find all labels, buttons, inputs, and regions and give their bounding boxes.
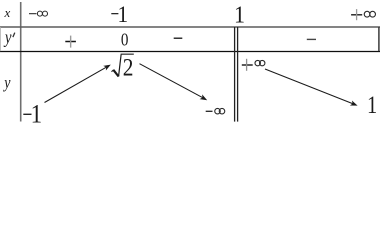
falling arrow shaft (left cell) bbox=[140, 64, 203, 98]
infinity of +inf in y row bbox=[255, 60, 260, 65]
falling arrow head (right cell) bbox=[350, 100, 358, 105]
plus of +inf in y row (vertical stroke) bbox=[246, 59, 248, 71]
left column vertical line bbox=[20, 2, 22, 122]
minus sign in y' row (left cell) bbox=[174, 37, 183, 39]
row separator line 1 (under x row) bbox=[0, 26, 380, 28]
falling arrow shaft (right cell) bbox=[265, 69, 353, 104]
radical upstroke of sqrt(2) bbox=[119, 55, 122, 77]
minus sign in y' row (right cell) bbox=[307, 38, 316, 40]
rising arrow head bbox=[103, 65, 111, 71]
row label y' (prime) bbox=[13, 33, 15, 38]
plus of top-right +inf (horizontal stroke) bbox=[351, 14, 362, 16]
falling arrow head (left cell) bbox=[200, 94, 208, 100]
svg-text:1: 1 bbox=[234, 2, 245, 29]
row separator line 2 (under y' row) bbox=[0, 51, 380, 53]
infinity of bottom -inf bbox=[215, 108, 221, 114]
plus sign in y' row (horizontal stroke) bbox=[65, 41, 76, 43]
infinity of top-left -inf bbox=[37, 11, 42, 16]
plus sign in y' row (vertical stroke) bbox=[70, 36, 72, 48]
rising arrow shaft bbox=[45, 67, 107, 102]
radical tick of sqrt(2) bbox=[112, 70, 114, 72]
svg-text:0: 0 bbox=[121, 29, 129, 50]
infinity of top-right +inf bbox=[364, 11, 370, 17]
svg-text:y: y bbox=[2, 74, 10, 92]
double bar at x=1 (right line) bbox=[237, 27, 239, 122]
svg-text:y: y bbox=[3, 28, 12, 47]
radical thick downstroke of sqrt(2) bbox=[113, 70, 118, 77]
svg-text:2: 2 bbox=[123, 54, 134, 82]
left edge faint vertical (y' row box) bbox=[0, 27, 1, 51]
svg-text:x: x bbox=[4, 5, 11, 20]
double bar at x=1 (left line) bbox=[234, 27, 236, 122]
minus of -1 in x row bbox=[111, 13, 118, 15]
plus of top-right +inf (vertical stroke) bbox=[356, 9, 358, 20]
svg-text:1: 1 bbox=[367, 91, 377, 118]
minus of bottom-left -1 bbox=[23, 113, 31, 115]
svg-text:1: 1 bbox=[118, 1, 129, 27]
plus of +inf in y row (horizontal stroke) bbox=[242, 64, 253, 66]
minus of top-left -inf bbox=[29, 13, 37, 15]
svg-text:1: 1 bbox=[31, 100, 43, 129]
right edge short vertical (y' row box) bbox=[378, 27, 380, 51]
radical overbar of sqrt(2) bbox=[121, 53, 134, 55]
minus of bottom -inf bbox=[206, 110, 213, 112]
